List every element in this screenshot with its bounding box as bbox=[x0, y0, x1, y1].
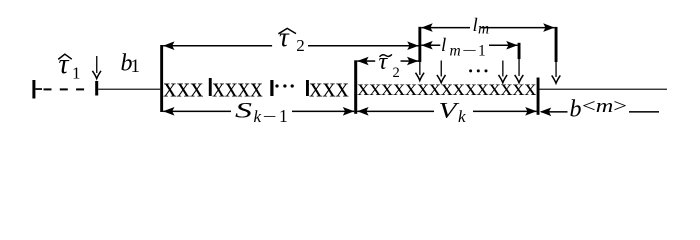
svg-text:1: 1 bbox=[72, 64, 81, 83]
tau-tilde-2 span line bbox=[357, 57, 418, 66]
label tau-hat-1 bbox=[58, 49, 80, 83]
label V_k bbox=[439, 97, 467, 126]
anchor bar E (l_m right end) with arrival arrow bbox=[552, 27, 561, 83]
label b1 bbox=[121, 51, 141, 78]
tick t0 (left start tick) bbox=[32, 80, 35, 99]
svg-text:τ: τ bbox=[279, 22, 290, 52]
label l_m bbox=[473, 15, 490, 38]
svg-text:τ: τ bbox=[379, 49, 389, 75]
svg-text:xxx: xxx bbox=[163, 72, 203, 103]
ellipsis dots (arrivals) bbox=[469, 69, 472, 72]
label S_{k-1} bbox=[235, 97, 288, 126]
svg-text:S: S bbox=[235, 97, 252, 122]
svg-text:xxx: xxx bbox=[309, 72, 349, 103]
tick s3 bbox=[306, 80, 309, 96]
label b^<m> bbox=[570, 97, 628, 123]
l_{m-1} span line bbox=[421, 41, 517, 50]
svg-text:xxxxxxxxxxxxxxx: xxxxxxxxxxxxxxx bbox=[357, 75, 537, 100]
svg-text:k: k bbox=[458, 107, 466, 126]
svg-text:1: 1 bbox=[131, 56, 141, 77]
svg-text:k: k bbox=[254, 107, 262, 126]
l_m span line bbox=[421, 23, 554, 32]
svg-text:τ: τ bbox=[59, 49, 70, 80]
arrival arrow above tick t1 bbox=[92, 56, 101, 79]
baseline wire right of V_k bbox=[540, 89, 668, 90]
svg-text:b: b bbox=[570, 97, 582, 123]
label tau-hat-2 bbox=[278, 22, 304, 55]
svg-text:l: l bbox=[441, 35, 446, 56]
node bar B1 (start of S_{k-1}) bbox=[160, 45, 163, 112]
svg-text:−: − bbox=[263, 107, 277, 126]
anchor bar D (l_{m-1} right end) with arrival arrow bbox=[515, 43, 524, 83]
svg-text:<m>: <m> bbox=[582, 97, 627, 117]
svg-text:−: − bbox=[462, 43, 477, 60]
tick t1 bbox=[95, 81, 98, 96]
wire b1 segment bbox=[98, 89, 160, 90]
node bar B3 (end of V_k) bbox=[537, 78, 540, 115]
svg-text:m: m bbox=[450, 43, 461, 60]
svg-text:1: 1 bbox=[478, 43, 486, 60]
S_{k-1} span line bbox=[163, 107, 354, 116]
tau-hat-2 span line bbox=[163, 41, 419, 50]
svg-text:m: m bbox=[478, 21, 489, 38]
svg-text:l: l bbox=[473, 15, 478, 36]
wire stub right of tick t0 bbox=[35, 88, 42, 90]
V_k span line bbox=[357, 107, 536, 116]
svg-text:2: 2 bbox=[296, 36, 305, 55]
node bar B2 (S/V divider) bbox=[354, 60, 357, 114]
label tau-tilde-2 bbox=[379, 49, 400, 81]
tick s2 bbox=[270, 80, 273, 96]
svg-text:1: 1 bbox=[279, 106, 288, 126]
ellipsis dots on baseline bbox=[275, 84, 278, 87]
multi-anchor bar A (l_m / l_{m-1} left, tau arrows right end) bbox=[416, 27, 425, 81]
tick s1 bbox=[209, 78, 212, 96]
arrival arrow d1 bbox=[437, 61, 446, 83]
arrival arrow d2 bbox=[499, 61, 508, 83]
dashed wire (idle segment) bbox=[44, 88, 52, 90]
label l_{m-1} bbox=[441, 35, 486, 60]
b^<m> measure line bbox=[540, 108, 659, 117]
